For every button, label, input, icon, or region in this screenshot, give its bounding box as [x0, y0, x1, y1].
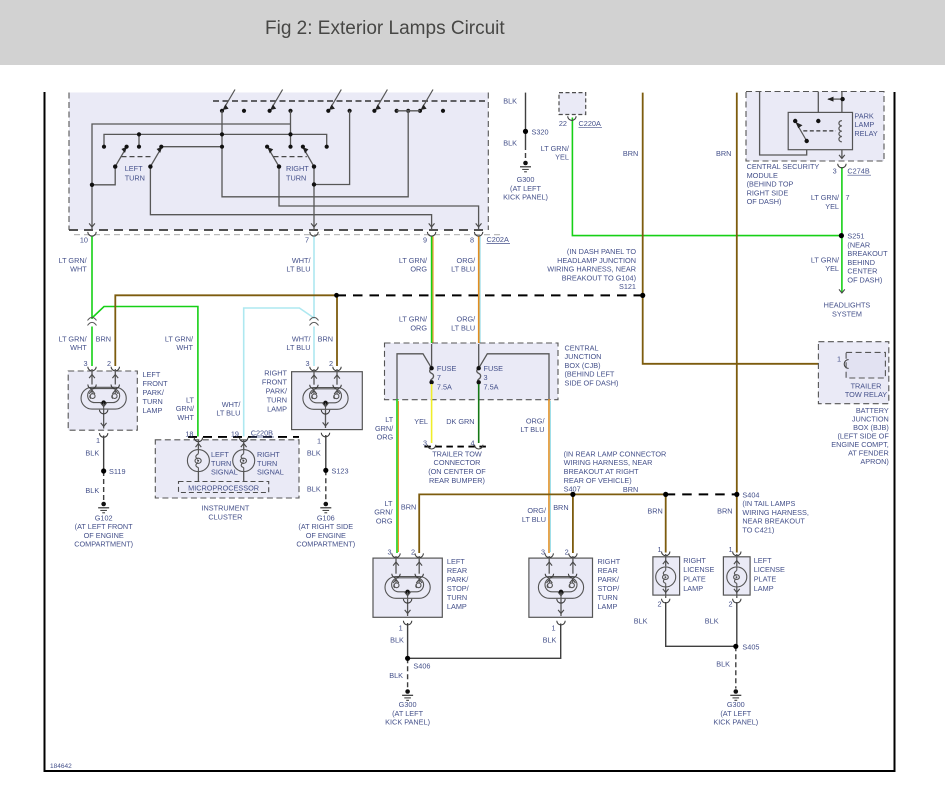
svg-text:BLK: BLK: [85, 486, 99, 495]
svg-text:RIGHT SIDE: RIGHT SIDE: [747, 188, 789, 197]
svg-text:7.5A: 7.5A: [437, 382, 452, 391]
svg-text:FUSE: FUSE: [437, 364, 457, 373]
svg-text:3: 3: [833, 167, 837, 176]
svg-text:BREAKOUT AT RIGHT: BREAKOUT AT RIGHT: [564, 467, 640, 476]
svg-text:BLK: BLK: [389, 671, 403, 680]
svg-text:BLK: BLK: [503, 139, 517, 148]
svg-text:WIRING HARNESS, NEAR: WIRING HARNESS, NEAR: [564, 458, 653, 467]
svg-text:STOP/: STOP/: [598, 584, 621, 593]
svg-text:BRN: BRN: [623, 149, 638, 158]
svg-text:BRN: BRN: [623, 485, 638, 494]
svg-text:TURN: TURN: [257, 459, 277, 468]
svg-text:KICK PANEL): KICK PANEL): [385, 718, 430, 727]
svg-text:22: 22: [559, 119, 567, 128]
svg-text:PLATE: PLATE: [754, 575, 777, 584]
svg-text:GRN/: GRN/: [374, 508, 393, 517]
svg-text:LT BLU: LT BLU: [286, 265, 310, 274]
svg-text:BLK: BLK: [634, 617, 648, 626]
svg-text:KICK PANEL): KICK PANEL): [713, 718, 758, 727]
svg-text:1: 1: [728, 545, 732, 554]
svg-text:LT GRN/: LT GRN/: [399, 315, 428, 324]
svg-text:Fig 2: Exterior Lamps Circuit: Fig 2: Exterior Lamps Circuit: [265, 18, 505, 39]
svg-text:LEFT: LEFT: [754, 556, 772, 565]
svg-text:LEFT: LEFT: [125, 164, 143, 173]
svg-text:ORG: ORG: [410, 323, 427, 332]
svg-text:3: 3: [83, 359, 87, 368]
svg-text:CENTRAL: CENTRAL: [565, 343, 599, 352]
svg-text:S123: S123: [332, 466, 349, 475]
svg-text:S407: S407: [564, 485, 581, 494]
svg-text:2: 2: [329, 359, 333, 368]
svg-text:TURN: TURN: [211, 459, 231, 468]
svg-text:WHT: WHT: [176, 343, 193, 352]
svg-text:BRN: BRN: [318, 334, 333, 343]
svg-text:(ON CENTER OF: (ON CENTER OF: [428, 467, 486, 476]
svg-text:BLK: BLK: [716, 659, 730, 668]
svg-text:ORG: ORG: [377, 433, 394, 442]
svg-text:(AT RIGHT SIDE: (AT RIGHT SIDE: [298, 522, 353, 531]
svg-text:YEL: YEL: [825, 202, 839, 211]
svg-text:APRON): APRON): [860, 457, 888, 466]
svg-text:1: 1: [399, 623, 403, 632]
svg-text:WHT: WHT: [177, 413, 194, 422]
svg-text:19: 19: [231, 429, 239, 438]
svg-text:S119: S119: [109, 467, 126, 476]
svg-text:18: 18: [185, 429, 193, 438]
svg-text:BLK: BLK: [307, 449, 321, 458]
svg-text:BREAKOUT TO G104): BREAKOUT TO G104): [562, 273, 636, 282]
svg-text:WHT/: WHT/: [292, 334, 312, 343]
svg-text:3: 3: [387, 548, 391, 557]
svg-text:PLATE: PLATE: [683, 575, 706, 584]
svg-text:BLK: BLK: [307, 484, 321, 493]
svg-text:SIGNAL: SIGNAL: [211, 468, 238, 477]
svg-text:LAMP: LAMP: [683, 584, 703, 593]
svg-text:CENTER: CENTER: [847, 267, 877, 276]
svg-text:TRAILER TOW: TRAILER TOW: [432, 449, 482, 458]
svg-text:G300: G300: [517, 175, 535, 184]
svg-text:LAMP: LAMP: [854, 120, 874, 129]
svg-text:1: 1: [837, 355, 841, 364]
svg-text:TRAILER: TRAILER: [851, 381, 882, 390]
svg-text:RIGHT: RIGHT: [264, 369, 287, 378]
svg-text:LT GRN/: LT GRN/: [541, 144, 570, 153]
svg-text:WHT: WHT: [70, 343, 87, 352]
svg-text:LAMP: LAMP: [754, 584, 774, 593]
svg-text:REAR BUMPER): REAR BUMPER): [429, 476, 485, 485]
svg-text:GRN/: GRN/: [375, 424, 394, 433]
svg-text:SYSTEM: SYSTEM: [832, 310, 862, 319]
svg-text:BRN: BRN: [96, 334, 111, 343]
svg-text:GRN/: GRN/: [176, 404, 195, 413]
svg-text:BLK: BLK: [85, 449, 99, 458]
svg-text:STOP/: STOP/: [447, 584, 470, 593]
svg-text:ORG: ORG: [376, 516, 393, 525]
svg-text:FRONT: FRONT: [143, 379, 169, 388]
svg-text:DK GRN: DK GRN: [446, 417, 474, 426]
svg-text:COMPARTMENT): COMPARTMENT): [74, 540, 133, 549]
svg-text:S406: S406: [413, 662, 430, 671]
svg-text:PARK/: PARK/: [143, 388, 165, 397]
svg-text:CONNECTOR: CONNECTOR: [434, 458, 481, 467]
svg-text:LT BLU: LT BLU: [216, 409, 240, 418]
svg-text:9: 9: [423, 236, 427, 245]
svg-text:LAMP: LAMP: [598, 602, 618, 611]
svg-text:TO C421): TO C421): [742, 526, 774, 535]
svg-text:3: 3: [305, 359, 309, 368]
svg-text:LT BLU: LT BLU: [451, 323, 475, 332]
svg-text:OF DASH): OF DASH): [847, 276, 882, 285]
svg-text:FUSE: FUSE: [484, 364, 504, 373]
svg-text:YEL: YEL: [414, 417, 428, 426]
svg-text:S404: S404: [742, 490, 759, 499]
svg-text:LICENSE: LICENSE: [683, 565, 714, 574]
svg-text:G106: G106: [317, 513, 335, 522]
svg-text:KICK PANEL): KICK PANEL): [503, 193, 548, 202]
svg-text:(AT LEFT: (AT LEFT: [392, 709, 423, 718]
svg-text:7: 7: [846, 193, 850, 202]
svg-text:1: 1: [317, 436, 321, 445]
svg-text:S121: S121: [619, 282, 636, 291]
svg-text:RIGHT: RIGHT: [286, 164, 309, 173]
svg-text:HEADLIGHTS: HEADLIGHTS: [824, 301, 871, 310]
svg-text:LT GRN/: LT GRN/: [165, 334, 194, 343]
svg-text:RIGHT: RIGHT: [683, 556, 706, 565]
svg-text:(IN DASH PANEL TO: (IN DASH PANEL TO: [567, 247, 636, 256]
svg-text:LT BLU: LT BLU: [522, 515, 546, 524]
svg-text:7.5A: 7.5A: [484, 382, 499, 391]
svg-text:4: 4: [470, 439, 474, 448]
svg-text:(NEAR: (NEAR: [847, 240, 870, 249]
svg-text:G300: G300: [399, 700, 417, 709]
svg-text:S320: S320: [532, 128, 549, 137]
svg-text:OF ENGINE: OF ENGINE: [84, 531, 124, 540]
svg-text:BLK: BLK: [543, 636, 557, 645]
svg-text:INSTRUMENT: INSTRUMENT: [201, 504, 249, 513]
svg-text:BRN: BRN: [716, 149, 731, 158]
svg-text:C274B: C274B: [847, 167, 869, 176]
svg-text:RIGHT: RIGHT: [257, 450, 280, 459]
svg-text:TURN: TURN: [286, 174, 306, 183]
svg-text:LT BLU: LT BLU: [451, 265, 475, 274]
svg-text:LAMP: LAMP: [447, 602, 467, 611]
svg-text:LT BLU: LT BLU: [520, 425, 544, 434]
svg-text:LICENSE: LICENSE: [754, 565, 785, 574]
svg-text:(AT LEFT: (AT LEFT: [720, 709, 751, 718]
svg-text:RELAY: RELAY: [854, 129, 878, 138]
svg-text:JUNCTION: JUNCTION: [565, 352, 602, 361]
svg-text:1: 1: [96, 436, 100, 445]
svg-text:2: 2: [411, 548, 415, 557]
svg-text:LEFT: LEFT: [211, 450, 229, 459]
svg-text:TURN: TURN: [125, 174, 145, 183]
svg-text:2: 2: [657, 600, 661, 609]
svg-text:OF ENGINE: OF ENGINE: [306, 531, 346, 540]
svg-text:LAMP: LAMP: [267, 405, 287, 414]
svg-text:NEAR BREAKOUT: NEAR BREAKOUT: [742, 517, 805, 526]
svg-text:1: 1: [551, 623, 555, 632]
svg-text:BRN: BRN: [717, 507, 732, 516]
svg-text:MODULE: MODULE: [747, 171, 778, 180]
svg-text:LT: LT: [186, 395, 195, 404]
svg-text:HEADLAMP JUNCTION: HEADLAMP JUNCTION: [557, 256, 636, 265]
svg-text:LT: LT: [385, 499, 394, 508]
svg-text:BRN: BRN: [647, 507, 662, 516]
svg-text:CLUSTER: CLUSTER: [208, 512, 242, 521]
svg-text:2: 2: [728, 600, 732, 609]
svg-text:WIRING HARNESS,: WIRING HARNESS,: [742, 508, 809, 517]
svg-text:S405: S405: [742, 642, 759, 651]
svg-text:ORG/: ORG/: [527, 506, 547, 515]
svg-text:YEL: YEL: [825, 264, 839, 273]
svg-text:(BEHIND LEFT: (BEHIND LEFT: [565, 370, 615, 379]
svg-text:2: 2: [565, 548, 569, 557]
svg-text:10: 10: [80, 236, 88, 245]
svg-text:ORG: ORG: [410, 265, 427, 274]
svg-text:LT GRN/: LT GRN/: [59, 334, 88, 343]
svg-text:LT BLU: LT BLU: [286, 343, 310, 352]
svg-text:ORG/: ORG/: [526, 416, 546, 425]
svg-text:7: 7: [305, 236, 309, 245]
svg-text:(IN REAR LAMP CONNECTOR: (IN REAR LAMP CONNECTOR: [564, 449, 667, 458]
svg-text:ORG/: ORG/: [457, 315, 477, 324]
svg-text:(IN TAIL LAMPS: (IN TAIL LAMPS: [742, 499, 795, 508]
svg-text:REAR OF VEHICLE): REAR OF VEHICLE): [564, 476, 632, 485]
svg-text:1: 1: [657, 545, 661, 554]
svg-text:TURN: TURN: [447, 593, 467, 602]
svg-text:PARK/: PARK/: [598, 575, 620, 584]
svg-text:184642: 184642: [50, 763, 72, 770]
svg-text:FRONT: FRONT: [262, 378, 288, 387]
svg-text:REAR: REAR: [598, 566, 618, 575]
svg-text:TURN: TURN: [267, 396, 287, 405]
svg-text:RIGHT: RIGHT: [598, 557, 621, 566]
svg-text:S251: S251: [847, 232, 864, 241]
svg-text:(BEHIND TOP: (BEHIND TOP: [747, 180, 794, 189]
svg-text:3: 3: [423, 439, 427, 448]
svg-text:LAMP: LAMP: [143, 406, 163, 415]
svg-text:WHT/: WHT/: [222, 400, 242, 409]
svg-text:MICROPROCESSOR: MICROPROCESSOR: [188, 484, 259, 493]
svg-text:LT GRN/: LT GRN/: [811, 255, 840, 264]
svg-text:G300: G300: [727, 700, 745, 709]
svg-text:LEFT: LEFT: [447, 557, 465, 566]
svg-text:3: 3: [541, 548, 545, 557]
svg-text:2: 2: [107, 359, 111, 368]
svg-text:BRN: BRN: [553, 503, 568, 512]
svg-text:8: 8: [470, 236, 474, 245]
svg-text:CENTRAL SECURITY: CENTRAL SECURITY: [747, 162, 820, 171]
svg-text:OF DASH): OF DASH): [747, 197, 782, 206]
svg-text:C202A: C202A: [487, 235, 509, 244]
svg-text:G102: G102: [95, 513, 113, 522]
svg-text:PARK/: PARK/: [447, 575, 469, 584]
svg-text:TOW RELAY: TOW RELAY: [845, 390, 887, 399]
svg-text:BLK: BLK: [390, 636, 404, 645]
svg-text:3: 3: [484, 373, 488, 382]
svg-text:PARK: PARK: [854, 111, 873, 120]
svg-text:LT: LT: [385, 415, 394, 424]
svg-text:BLK: BLK: [705, 617, 719, 626]
svg-text:LEFT: LEFT: [143, 370, 161, 379]
svg-text:TURN: TURN: [598, 593, 618, 602]
svg-text:BOX (CJB): BOX (CJB): [565, 361, 601, 370]
svg-text:REAR: REAR: [447, 566, 467, 575]
svg-text:BRN: BRN: [401, 502, 416, 511]
svg-text:WHT: WHT: [70, 265, 87, 274]
svg-text:TURN: TURN: [143, 397, 163, 406]
svg-text:WIRING HARNESS, NEAR: WIRING HARNESS, NEAR: [547, 265, 636, 274]
svg-text:BLK: BLK: [503, 97, 517, 106]
svg-text:7: 7: [437, 373, 441, 382]
svg-text:LT GRN/: LT GRN/: [811, 193, 840, 202]
svg-text:C220B: C220B: [251, 429, 273, 438]
svg-text:BEHIND: BEHIND: [847, 258, 875, 267]
svg-text:(AT LEFT FRONT: (AT LEFT FRONT: [75, 522, 134, 531]
svg-text:(AT LEFT: (AT LEFT: [510, 184, 541, 193]
svg-text:SIDE OF DASH): SIDE OF DASH): [565, 379, 619, 388]
svg-text:PARK/: PARK/: [266, 387, 288, 396]
svg-text:SIGNAL: SIGNAL: [257, 468, 284, 477]
svg-text:BREAKOUT: BREAKOUT: [847, 249, 888, 258]
svg-text:COMPARTMENT): COMPARTMENT): [296, 540, 355, 549]
svg-text:YEL: YEL: [555, 153, 569, 162]
svg-text:C220A: C220A: [579, 119, 601, 128]
